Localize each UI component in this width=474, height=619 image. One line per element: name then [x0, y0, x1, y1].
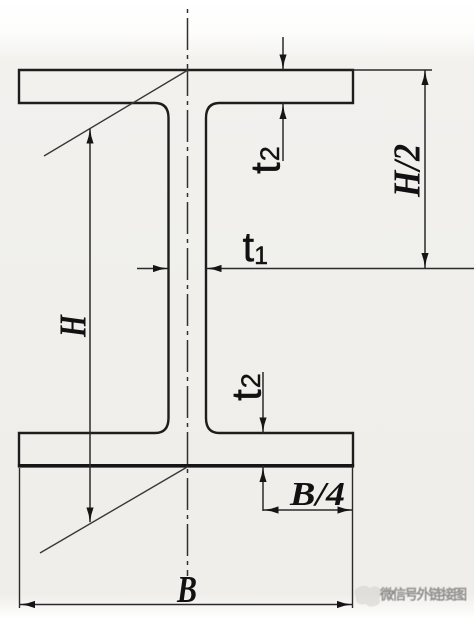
B left arrow	[20, 601, 36, 608]
svg-text:H/2: H/2	[387, 144, 429, 198]
t1 right arrow	[206, 265, 222, 272]
I-beam section outline	[19, 70, 353, 466]
t2 top dimension lower line	[282, 103, 284, 161]
dimension H/2 line	[424, 70, 426, 269]
bottom slope line	[40, 467, 188, 554]
svg-text:B: B	[176, 569, 197, 611]
B/4 dimension line	[263, 509, 353, 511]
t2 bottom lower line / B4 left extension	[262, 466, 264, 511]
t2 top dimension upper line	[282, 37, 284, 70]
t2 top upper arrow	[279, 55, 286, 71]
dimension B line	[20, 604, 353, 606]
bottom flange thick bottom edge	[18, 464, 354, 468]
svg-text:微信号外链接图: 微信号外链接图	[379, 586, 467, 602]
B/4 right arrow	[338, 506, 354, 513]
t2 bottom upper arrow	[259, 418, 266, 434]
svg-text:t1: t1	[243, 223, 269, 270]
dimension H line	[89, 129, 91, 522]
H/2 extension line	[353, 69, 432, 71]
svg-text:B/4: B/4	[289, 476, 345, 513]
dimension H/2 top arrow	[421, 70, 428, 86]
svg-text:t2: t2	[223, 373, 270, 401]
top slope line	[44, 70, 188, 156]
t2 bottom lower arrow	[259, 467, 266, 483]
t1 dimension line left segment	[137, 268, 169, 270]
B right arrow	[337, 601, 353, 608]
dimension H/2 bottom arrow	[421, 253, 428, 269]
B left extension line	[19, 468, 21, 608]
svg-text:t2: t2	[242, 146, 289, 174]
t1 left arrow	[153, 265, 169, 272]
B/4 left arrow	[263, 506, 279, 513]
dimension H top arrow	[86, 128, 93, 144]
dimension H bottom arrow	[86, 508, 93, 524]
t2 bottom dimension upper line	[262, 372, 264, 433]
watermark logo	[355, 586, 382, 607]
vertical centerline	[187, 8, 189, 576]
t1 dimension line right segment / mid extension line	[206, 268, 474, 270]
B right extension line	[352, 466, 354, 608]
t2 top lower arrow	[279, 104, 286, 120]
svg-text:H: H	[53, 314, 95, 338]
